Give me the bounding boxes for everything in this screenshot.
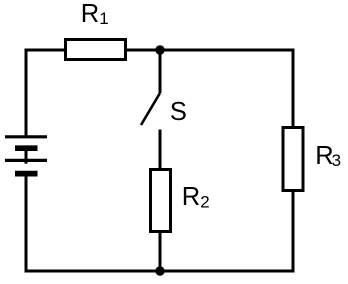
battery B1: top cell long plate (+) — [5, 135, 47, 138]
wire: bottom horizontal, node B to bottom-right corner — [160, 270, 295, 273]
battery B1: top cell short thick plate (-) — [15, 145, 38, 151]
wire: bottom horizontal, left corner to node B — [25, 270, 161, 273]
battery B1: bottom cell long plate (+) — [5, 159, 47, 162]
wire: top horizontal, R1 right lead to node A — [125, 49, 160, 52]
svg-text:R3: R3 — [315, 142, 341, 170]
resistor R3 — [283, 128, 303, 191]
battery B1: bottom cell short thick plate (-) — [15, 171, 38, 177]
wire: right branch, top-right corner down to R3 — [292, 49, 295, 128]
resistor R1 — [66, 40, 126, 60]
resistor R2 — [151, 170, 171, 232]
svg-text:S: S — [170, 98, 187, 126]
wire: middle branch, node A down to switch top contact — [159, 49, 162, 94]
wire: right branch, R3 down to bottom-right corner — [292, 191, 295, 273]
svg-text:R2: R2 — [182, 183, 210, 211]
node B (bottom junction dot) — [155, 266, 164, 275]
wire: top horizontal, node A to top-right corner — [160, 49, 295, 52]
switch S (open blade) — [141, 93, 160, 125]
wire: middle branch, R2 to node B — [159, 233, 162, 272]
wire: left branch, top-left corner down to battery — [25, 49, 28, 139]
battery B1: inter-cell connector wire — [25, 148, 28, 164]
wire: left branch, battery down to bottom-left corner — [25, 174, 28, 273]
wire: top horizontal, left corner to R1 left lead — [25, 49, 67, 52]
node A (top junction dot) — [155, 45, 164, 54]
wire: middle branch, switch bottom contact to R2 — [159, 130, 162, 170]
svg-text:R1: R1 — [81, 0, 109, 28]
